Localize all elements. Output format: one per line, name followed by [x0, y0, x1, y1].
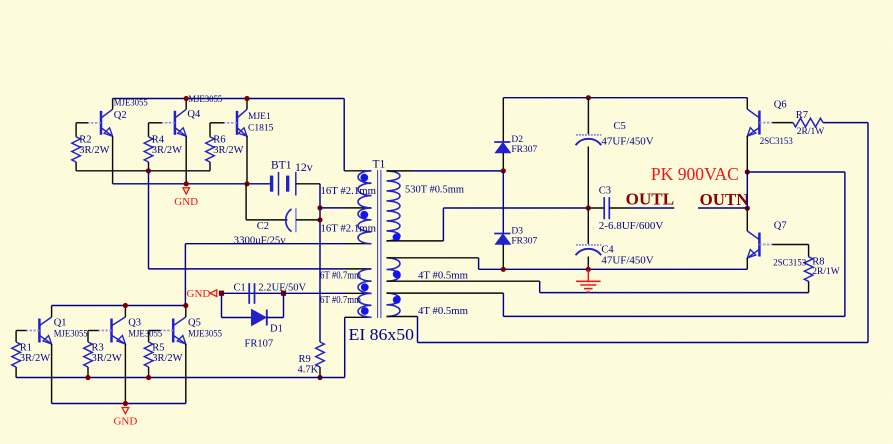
wire: C2 left lead	[246, 219, 287, 221]
svg-text:D1: D1	[270, 324, 283, 335]
wire: R5 bottom pin	[148, 367, 150, 378]
wire: emitter rail to battery	[113, 183, 272, 185]
wire: Q5 collector stub	[185, 306, 187, 318]
svg-text:C3: C3	[599, 185, 611, 196]
node junction C5/C4 mid	[586, 205, 591, 210]
svg-text:R7: R7	[796, 110, 808, 121]
wire: top-left supply rail	[113, 98, 345, 100]
wire: 4T-1 bottom step	[539, 281, 541, 292]
resistor R5	[144, 342, 153, 367]
wire: 4T-1 top lead	[387, 257, 479, 259]
svg-text:12v: 12v	[295, 160, 313, 174]
transistor Q6	[758, 111, 761, 135]
wire: C1815 emitter down to C2	[245, 184, 247, 220]
svg-text:3R/2W: 3R/2W	[79, 145, 109, 156]
wire: vertical feed x320	[319, 184, 321, 342]
wire: R6 bottom pin	[209, 162, 211, 171]
wire: C5 bottom pin	[587, 147, 589, 209]
transistor Q5	[172, 319, 175, 343]
wire: Q1 collector stub	[51, 306, 53, 318]
node junction C4 bottom	[586, 267, 591, 272]
resistor R1	[12, 342, 21, 367]
wire: 4T-2 bottom lead	[387, 316, 418, 318]
wire: 16T winding 1 top lead	[344, 170, 371, 172]
wire: OUTL segment	[630, 207, 674, 209]
svg-text:C1815: C1815	[248, 124, 274, 134]
capacitor C4 (polarized)	[576, 244, 601, 246]
wire: D1 loop left	[221, 293, 223, 317]
capacitor C5 (polarized)	[576, 134, 601, 136]
svg-text:BT1: BT1	[271, 160, 292, 172]
svg-text:4.7K: 4.7K	[298, 364, 319, 375]
wire: 4T-1 top step	[478, 258, 480, 270]
svg-text:16T #2.1mm: 16T #2.1mm	[321, 186, 377, 197]
node junction C5 top	[586, 95, 591, 100]
wire: 6T-2 bottom return riser	[344, 317, 346, 377]
svg-text:3R/2W: 3R/2W	[213, 145, 243, 156]
node junction R9 bottom	[317, 375, 322, 380]
wire: Q1 emitter down	[51, 344, 53, 404]
wire: 4T-1 bottom lead	[387, 280, 540, 282]
svg-text:D3: D3	[511, 226, 523, 236]
wire: C3 right pin	[609, 207, 630, 209]
wire: Q5 emitter down	[185, 344, 187, 404]
node junction Q5 collector	[183, 303, 188, 308]
diode D3 FR307	[494, 233, 510, 235]
wire: OUTL feed	[443, 207, 588, 209]
wire: R2-R4-R6 bottom tie	[76, 170, 210, 172]
wire: Q4 emitter stub	[185, 136, 187, 184]
svg-text:16T #2.1mm: 16T #2.1mm	[321, 223, 377, 234]
wire: C1815 collector stub	[246, 99, 248, 110]
wire: 16T winding 2 top lead	[320, 207, 345, 209]
diode D1 FR107	[252, 310, 267, 326]
svg-text:PK 900VAC: PK 900VAC	[651, 164, 739, 184]
svg-text:GND: GND	[113, 416, 137, 428]
wire: Q3 base to R3	[88, 330, 99, 332]
svg-text:Q2: Q2	[114, 110, 127, 121]
wire: C5 top pin	[587, 98, 589, 135]
svg-text:Q7: Q7	[774, 220, 787, 231]
wire: C3 left pin	[588, 207, 604, 209]
wire: Q6 emitter down	[746, 136, 748, 172]
svg-text:OUTN: OUTN	[700, 190, 749, 209]
wire: D2 cathode column	[502, 98, 504, 142]
wire: R8 top pin	[808, 245, 810, 257]
wire: D2-D3 mid column	[502, 171, 504, 234]
svg-text:C5: C5	[614, 121, 626, 132]
svg-text:R8: R8	[812, 257, 824, 268]
wire: R8 bottom pin	[808, 281, 810, 292]
svg-text:3R/2W: 3R/2W	[152, 145, 182, 156]
wire: cross-feed down to lower cluster collectors	[184, 244, 186, 306]
wire: Q2 collector stub	[112, 99, 114, 110]
T1 primary winding 16T #2.1mm upper	[358, 171, 371, 208]
node junction lower GND	[123, 401, 128, 406]
svg-text:2R/1W: 2R/1W	[797, 127, 824, 137]
node junction R5 bottom	[146, 375, 151, 380]
svg-text:3300uF/25v: 3300uF/25v	[234, 236, 287, 247]
node junction 16T-2 top tap	[317, 205, 322, 210]
svg-text:6T #0.7mm: 6T #0.7mm	[320, 270, 361, 281]
wire: C4 top pin	[587, 208, 589, 244]
wire: rail corner down to 16T winding 1 top	[343, 99, 345, 171]
wire: Q2 base to R2	[76, 122, 88, 124]
resistor R7	[793, 118, 823, 127]
svg-text:6T #0.7mm: 6T #0.7mm	[320, 295, 361, 306]
wire: R4 node down feed	[148, 171, 150, 269]
node junction Q4 emitter / GND	[184, 181, 189, 186]
svg-text:R1: R1	[20, 343, 32, 354]
ground port GND bottom cluster	[122, 408, 129, 414]
svg-text:47UF/450V: 47UF/450V	[601, 137, 654, 148]
wire: battery plus to vertical feed	[296, 183, 320, 185]
wire: HV return riser	[844, 172, 846, 316]
wire: Q4 base to R4	[149, 122, 162, 124]
svg-text:Q5: Q5	[188, 318, 201, 329]
node junction at R4 bottom	[146, 168, 151, 173]
wire: 6T winding 1 top lead row	[149, 268, 346, 270]
wire: R7 return riser	[867, 123, 869, 343]
wire: lower emitter rail	[52, 403, 186, 405]
wire: 16T winding 2 bottom lead to cross-feed	[185, 243, 345, 245]
earth ground symbol	[587, 269, 589, 281]
wire: C4 bottom pin	[587, 257, 589, 270]
svg-text:C1: C1	[234, 283, 246, 294]
wire: C2 right lead	[296, 219, 320, 221]
svg-text:Q3: Q3	[128, 318, 141, 329]
node junction D2 anode / 530T top	[501, 168, 506, 173]
svg-text:3R/2W: 3R/2W	[92, 353, 122, 364]
transistor Q3	[110, 319, 113, 343]
wire: 6T center tap lead	[284, 292, 346, 294]
svg-text:FR307: FR307	[511, 145, 537, 155]
wire: HV return rail	[503, 315, 845, 317]
wire: C1815 emitter stub	[246, 136, 248, 184]
wire: R8 return rail	[540, 292, 809, 294]
wire: D3 anode pin	[502, 244, 504, 269]
transistor Q1	[38, 319, 41, 343]
svg-text:R5: R5	[152, 343, 164, 354]
wire: C1815 base to R6	[210, 122, 224, 124]
wire: Q3 emitter down	[124, 344, 126, 404]
node junction Q4 collector	[184, 96, 189, 101]
svg-text:GND: GND	[174, 196, 198, 208]
svg-text:Q4: Q4	[187, 109, 201, 120]
transformer T1 core	[377, 170, 379, 318]
wire: secondary common rail	[479, 268, 748, 270]
wire: 4T-2 top lead	[387, 292, 504, 294]
wire: Q3 collector stub	[124, 306, 126, 318]
node junction HV tie	[745, 169, 750, 174]
T1 secondary winding 530T #0.5mm	[387, 171, 401, 241]
node junction C1815 emitter	[244, 181, 249, 186]
transistor Q7	[758, 233, 761, 257]
svg-text:47UF/450V: 47UF/450V	[601, 256, 654, 267]
wire: R9 bottom pin	[319, 367, 321, 378]
wire: R4 bottom pin	[148, 162, 150, 171]
svg-text:2SC3153: 2SC3153	[773, 258, 806, 268]
node junction C1 right	[281, 291, 286, 296]
svg-text:Q6: Q6	[774, 99, 787, 110]
wire: 530T top lead	[387, 170, 413, 172]
svg-text:T1: T1	[373, 159, 386, 171]
resistor R4	[144, 137, 153, 162]
capacitor C3	[603, 197, 605, 219]
svg-text:530T #0.5mm: 530T #0.5mm	[405, 184, 464, 195]
node junction Q3 collector	[123, 303, 128, 308]
wire: Q1 base to R1	[16, 330, 26, 332]
svg-text:2R/1W: 2R/1W	[812, 267, 839, 277]
battery BT1	[270, 176, 273, 192]
svg-text:OUTL: OUTL	[626, 190, 674, 209]
svg-text:R3: R3	[92, 343, 104, 354]
wire: top HV rail	[503, 97, 747, 99]
svg-text:4T #0.5mm: 4T #0.5mm	[418, 306, 468, 317]
T1 secondary winding 4T #0.5mm upper	[387, 258, 401, 281]
svg-text:MJE3055: MJE3055	[114, 98, 148, 108]
wire: R2 bottom pin	[75, 162, 77, 171]
svg-text:3R/2W: 3R/2W	[152, 353, 182, 364]
svg-text:MJE3055: MJE3055	[188, 95, 222, 105]
wire: R7 right lead	[823, 122, 868, 124]
wire: R1 bottom pin	[15, 367, 17, 378]
wire: D1 loop right	[267, 317, 284, 319]
wire: lower collector rail	[52, 305, 186, 307]
wire: HV node tie	[747, 171, 845, 173]
svg-text:MJE3055: MJE3055	[188, 330, 222, 340]
diode D2 FR307	[494, 141, 510, 143]
svg-text:D2: D2	[511, 135, 523, 145]
svg-text:2-6.8UF/600V: 2-6.8UF/600V	[599, 221, 664, 232]
wire: Q6-Q7 column	[746, 172, 748, 208]
wire: 530T bottom lead	[387, 240, 444, 242]
resistor R6	[206, 137, 215, 162]
svg-text:3R/2W: 3R/2W	[20, 353, 50, 364]
wire: lower resistor rail	[16, 377, 345, 379]
wire: Q6 collector stub	[746, 98, 748, 109]
wire: D2 anode pin	[502, 153, 504, 171]
wire: Q7 base wire	[772, 244, 808, 246]
resistor R3	[84, 342, 93, 367]
transistor U-C1815	[236, 111, 239, 135]
svg-text:EI 86x50: EI 86x50	[349, 325, 415, 344]
capacitor C1	[248, 283, 250, 304]
wire: 530T bottom riser	[442, 208, 444, 241]
wire: Q7 emitter down	[746, 258, 748, 269]
transistor Q4	[174, 111, 177, 135]
wire: Q7 collector stub	[746, 208, 748, 231]
ground port GND top cluster	[183, 188, 190, 194]
resistor R8	[804, 257, 813, 282]
wire: 6T winding 2 bottom lead	[345, 316, 371, 318]
T1 primary winding 16T #2.1mm lower	[358, 208, 372, 244]
node junction R3 bottom	[85, 375, 90, 380]
T1 feedback winding 6T #0.7mm upper	[358, 269, 372, 293]
wire: R7 return rail	[418, 342, 869, 344]
wire: Q6 base wire	[772, 122, 793, 124]
svg-text:FR307: FR307	[511, 237, 537, 247]
transistor Q2	[100, 111, 103, 135]
node junction C1815 collector	[244, 96, 249, 101]
wire: Q5 base to R5	[149, 330, 161, 332]
wire: 4T-2 top step	[502, 293, 504, 316]
wire: Q2 emitter down to emitter rail	[112, 136, 114, 184]
capacitor C2 (polarized)	[286, 209, 292, 232]
resistor R9	[316, 342, 325, 367]
svg-text:FR107: FR107	[245, 339, 274, 350]
wire: C1 lead	[223, 292, 284, 294]
wire: OUTN segment	[698, 207, 747, 209]
svg-text:MJE1: MJE1	[248, 112, 271, 122]
svg-text:MJE3055: MJE3055	[54, 330, 88, 340]
resistor R2	[72, 137, 81, 162]
svg-text:GND: GND	[187, 288, 211, 300]
wire: R3 bottom pin	[87, 367, 89, 378]
node junction OUTN	[745, 206, 750, 211]
svg-text:C2: C2	[257, 221, 269, 232]
T1 secondary winding 4T #0.5mm lower	[387, 293, 401, 316]
wire: 4T-2 bottom step	[417, 317, 419, 343]
wire: Q4 collector stub	[185, 99, 187, 110]
svg-text:C4: C4	[601, 245, 614, 256]
svg-text:4T #0.5mm: 4T #0.5mm	[418, 271, 468, 282]
svg-text:2SC3153: 2SC3153	[760, 137, 793, 147]
node junction D3 anode	[501, 267, 506, 272]
T1 feedback winding 6T #0.7mm lower	[358, 293, 372, 317]
svg-text:Q1: Q1	[54, 318, 67, 329]
svg-text:MJE3055: MJE3055	[128, 330, 162, 340]
node junction C2 plus	[317, 217, 322, 222]
